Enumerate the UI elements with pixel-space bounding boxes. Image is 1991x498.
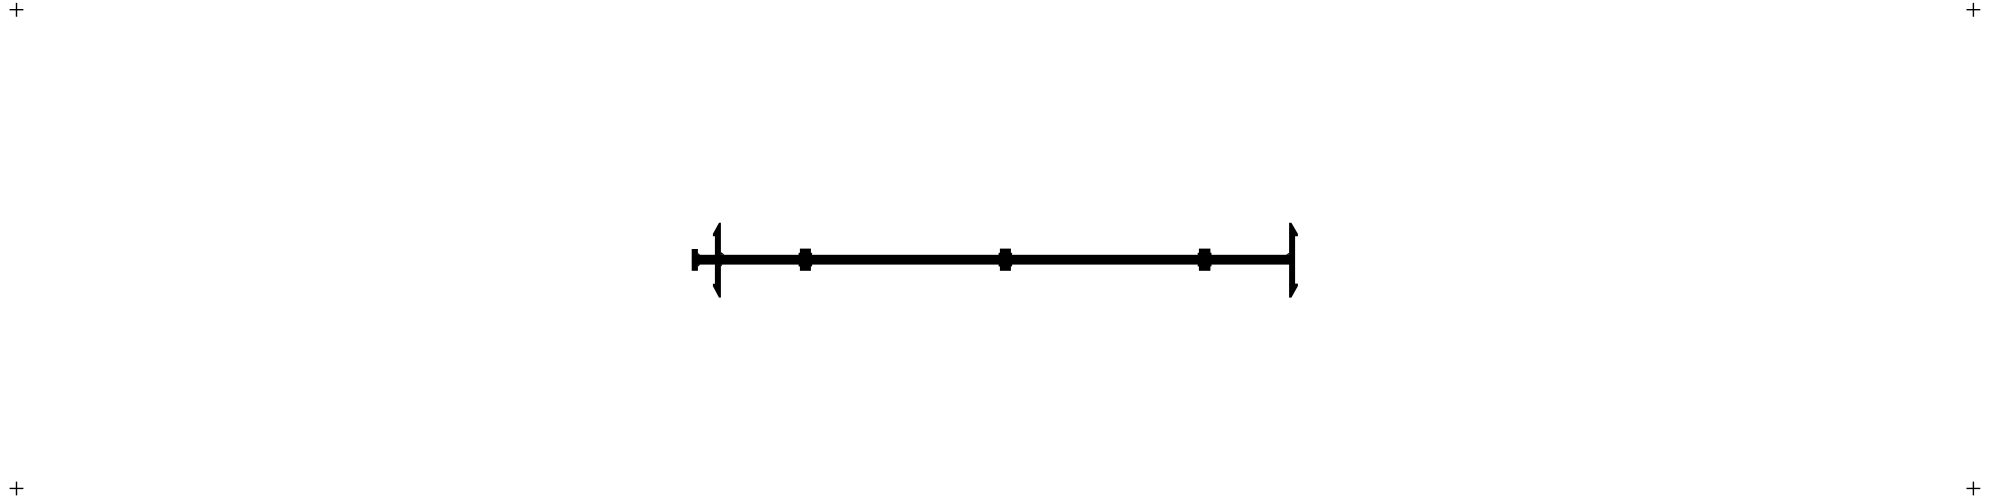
right support post with up/down arrow barbs — [1289, 223, 1298, 298]
registration mark bottom-right — [1967, 482, 1981, 496]
junction bead 2 — [999, 249, 1013, 271]
registration mark top-right — [1967, 3, 1981, 17]
junction bead 3 — [1198, 249, 1212, 271]
left support post with up/down arrow barbs — [713, 223, 721, 298]
registration mark top-left — [10, 3, 24, 17]
registration mark bottom-left — [10, 482, 24, 496]
wire fillet at left post crossing — [721, 252, 725, 267]
wire: main horizontal bus line — [695, 255, 1295, 265]
wire fillet at right post joint — [1286, 253, 1289, 255]
junction bead 1 — [799, 249, 813, 271]
left end cap terminal — [692, 249, 701, 271]
